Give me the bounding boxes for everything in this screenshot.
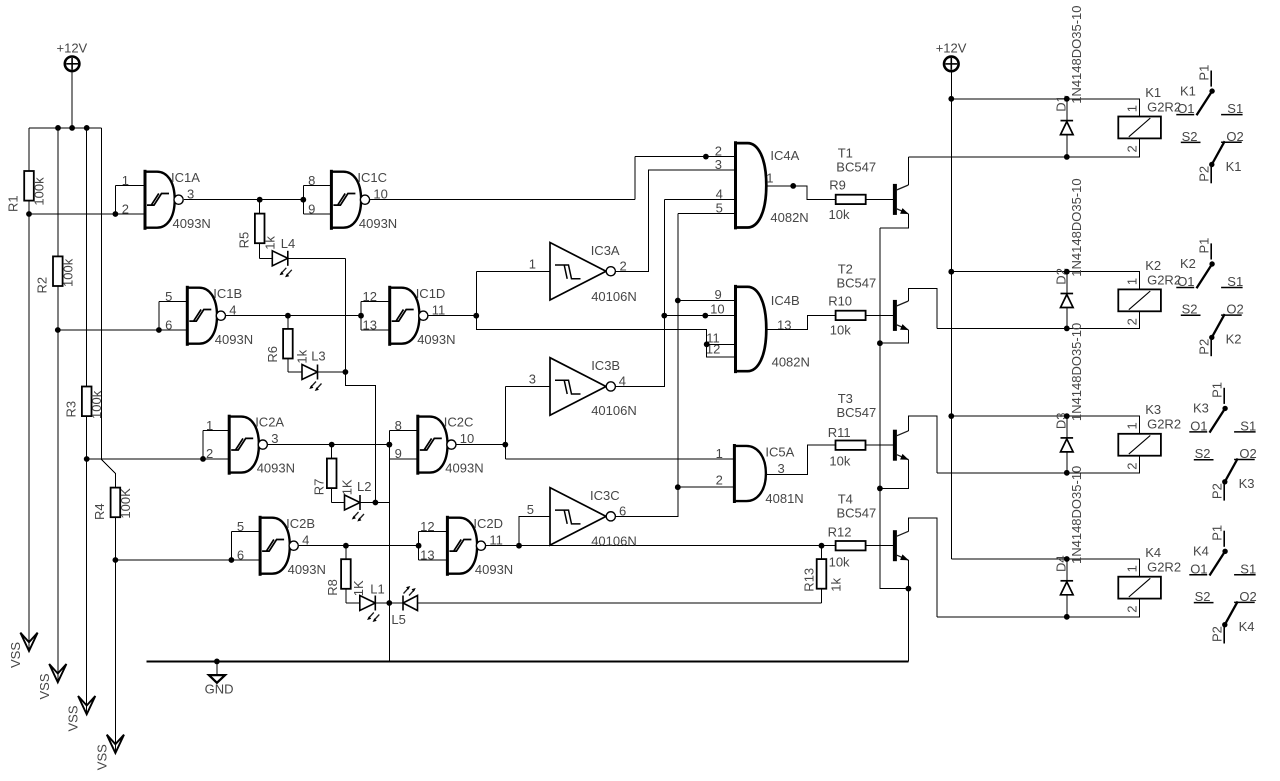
svg-text:P1: P1 xyxy=(1210,382,1225,398)
svg-text:4: 4 xyxy=(229,302,236,317)
svg-text:K4: K4 xyxy=(1193,544,1209,559)
wire column 1 upper xyxy=(28,128,30,171)
node IC5A pin2 column xyxy=(675,484,681,490)
svg-text:BC547: BC547 xyxy=(837,405,877,420)
svg-text:1k: 1k xyxy=(828,577,843,591)
svg-text:T3: T3 xyxy=(838,391,853,406)
transistor T1 BC547 xyxy=(893,184,909,215)
wire T4 emitter xyxy=(907,560,909,589)
wire column 3 lower xyxy=(86,415,88,713)
svg-text:2: 2 xyxy=(1124,463,1139,470)
svg-text:P2: P2 xyxy=(1210,483,1225,499)
svg-text:R11: R11 xyxy=(828,425,851,440)
ground VSS 4 xyxy=(107,735,124,753)
resistor R13 1k xyxy=(821,546,823,560)
node pin10 joint xyxy=(702,313,708,319)
svg-text:R12: R12 xyxy=(828,524,852,539)
svg-text:1N4148DO35-10: 1N4148DO35-10 xyxy=(1069,6,1084,104)
svg-text:10k: 10k xyxy=(829,555,850,570)
svg-text:IC4B: IC4B xyxy=(771,293,800,308)
node pin10 column xyxy=(661,313,667,319)
svg-text:G2R2: G2R2 xyxy=(1147,417,1181,432)
transistor T2 BC547 xyxy=(893,300,909,331)
svg-text:R1: R1 xyxy=(6,195,21,212)
resistor R5 1k xyxy=(259,200,261,214)
wire GND line xyxy=(146,660,908,662)
node R2 to IC1B xyxy=(55,327,61,333)
svg-text:IC3A: IC3A xyxy=(591,243,620,258)
svg-text:R7: R7 xyxy=(312,479,327,496)
wire IC2D out to R12/T4 xyxy=(486,545,893,547)
node D3 top xyxy=(1064,413,1070,419)
node D4 top xyxy=(1064,556,1070,562)
wire IC3A output to IC4A pin3 xyxy=(616,170,735,271)
svg-text:1N4148DO35-10: 1N4148DO35-10 xyxy=(1069,178,1084,276)
svg-text:T4: T4 xyxy=(838,492,853,507)
wire R8 to LED L1 xyxy=(346,602,360,604)
wire L4 to column xyxy=(288,257,346,259)
node T3 emitter rail xyxy=(877,486,883,492)
wire T2 collector xyxy=(908,288,937,328)
svg-text:R9: R9 xyxy=(829,177,846,192)
wire T1 collector xyxy=(907,157,909,185)
svg-text:K1: K1 xyxy=(1226,159,1242,174)
wire K4 pin2 xyxy=(937,599,1140,617)
wire column 4 upper xyxy=(101,128,115,488)
resistor R3 xyxy=(82,387,92,417)
node pin2 joint xyxy=(703,154,709,160)
svg-text:+12V: +12V xyxy=(57,41,88,56)
node R12-R13 tap xyxy=(819,543,825,549)
svg-text:5: 5 xyxy=(237,519,244,534)
node bus-col2 xyxy=(55,125,61,131)
wire IC3C input xyxy=(519,516,550,545)
resistor R12 10k xyxy=(836,541,866,550)
node IC4A out xyxy=(790,183,796,189)
svg-text:1: 1 xyxy=(529,257,536,272)
svg-text:10: 10 xyxy=(710,301,724,316)
wire R6 to LED L3 xyxy=(288,371,302,373)
diode D4 1N4148 xyxy=(1066,559,1068,581)
svg-text:40106N: 40106N xyxy=(591,533,637,548)
svg-text:1K: 1K xyxy=(351,580,366,596)
node L2 junction xyxy=(373,500,379,506)
wire +12V to bus xyxy=(71,71,73,128)
gate IC4A 4082N xyxy=(736,141,767,229)
gate IC2C 4093N xyxy=(389,430,418,459)
wire IC1D out to IC4B pins 11+12 xyxy=(476,316,735,357)
svg-text:IC2D: IC2D xyxy=(473,516,503,531)
node D2 top xyxy=(1064,269,1070,275)
node rail K2 xyxy=(948,269,954,275)
node R1 bottom xyxy=(26,211,32,217)
wire L2 to column xyxy=(360,502,389,504)
svg-text:4093N: 4093N xyxy=(445,461,483,476)
svg-text:4082N: 4082N xyxy=(770,210,808,225)
svg-text:S2: S2 xyxy=(1195,589,1211,604)
switch group K3 xyxy=(1189,382,1256,501)
svg-text:2: 2 xyxy=(716,472,723,487)
svg-text:P2: P2 xyxy=(1197,166,1212,182)
diode D3 1N4148 xyxy=(1066,416,1068,438)
led L3 xyxy=(302,365,322,392)
svg-text:R2: R2 xyxy=(34,277,49,294)
wire column 2 lower xyxy=(57,286,59,682)
wire T2 emitter xyxy=(880,330,909,343)
svg-text:S2: S2 xyxy=(1195,446,1211,461)
svg-text:1K: 1K xyxy=(340,479,355,495)
svg-text:IC4A: IC4A xyxy=(770,148,799,163)
wire K1 feed xyxy=(951,99,1139,117)
wire IC2C out xyxy=(457,444,506,446)
svg-text:G2R2: G2R2 xyxy=(1147,99,1181,114)
node R3 to IC2A xyxy=(84,456,90,462)
svg-text:1: 1 xyxy=(766,170,773,185)
svg-text:IC1B: IC1B xyxy=(213,286,242,301)
inverter IC3B 40106N xyxy=(550,358,615,416)
svg-text:13: 13 xyxy=(777,317,791,332)
svg-text:4: 4 xyxy=(302,532,309,547)
svg-text:IC2A: IC2A xyxy=(255,415,284,430)
wire R1 node to IC1A xyxy=(29,213,145,215)
wire column 2 upper xyxy=(57,128,59,257)
node rail K3 xyxy=(948,413,954,419)
power +12V (left) xyxy=(65,57,80,72)
svg-text:4082N: 4082N xyxy=(772,354,810,369)
svg-text:13: 13 xyxy=(363,317,377,332)
svg-text:100k: 100k xyxy=(89,390,104,419)
svg-text:R5: R5 xyxy=(237,232,252,249)
svg-text:4093N: 4093N xyxy=(475,562,513,577)
svg-text:K2: K2 xyxy=(1226,332,1242,347)
svg-text:IC2C: IC2C xyxy=(444,415,474,430)
svg-text:IC3B: IC3B xyxy=(591,358,620,373)
resistor R9 10k xyxy=(836,195,866,204)
wire L5 to R13 xyxy=(418,602,822,604)
wire K4 feed xyxy=(951,559,1139,577)
gate IC2B 4093N xyxy=(231,531,260,560)
svg-text:6: 6 xyxy=(165,317,172,332)
relay K4 G2R2 coil xyxy=(1118,577,1161,599)
svg-text:9: 9 xyxy=(714,287,721,302)
svg-text:3: 3 xyxy=(271,431,278,446)
svg-text:12: 12 xyxy=(420,519,434,534)
svg-text:BC547: BC547 xyxy=(837,275,877,290)
svg-text:5: 5 xyxy=(527,502,534,517)
resistor R4 xyxy=(111,488,121,518)
svg-text:T1: T1 xyxy=(838,145,853,160)
node D2 bottom xyxy=(1064,326,1070,332)
transistor T3 BC547 xyxy=(893,430,909,461)
svg-text:2: 2 xyxy=(1124,605,1139,612)
relay K3 G2R2 coil xyxy=(1118,434,1161,456)
wire R3 node to IC2A xyxy=(87,458,203,460)
diode D2 1N4148 xyxy=(1066,272,1068,294)
gate IC1A 4093N xyxy=(115,185,145,214)
svg-text:1k: 1k xyxy=(295,349,310,363)
wire K3 pin2 xyxy=(937,456,1140,473)
led L2 xyxy=(345,495,365,522)
svg-text:K4: K4 xyxy=(1239,619,1255,634)
wire supply bus xyxy=(29,127,101,129)
wire T1 emitter xyxy=(880,214,909,228)
node R4 to IC2B xyxy=(113,557,119,563)
svg-text:1: 1 xyxy=(206,418,213,433)
gate IC1B 4093N xyxy=(159,301,187,330)
wire R7 to LED L2 xyxy=(332,502,345,504)
ground VSS 3 xyxy=(78,696,95,714)
relay K1 G2R2 coil xyxy=(1118,117,1161,139)
svg-text:10: 10 xyxy=(373,186,387,201)
led L4 xyxy=(272,251,292,278)
inverter IC3C 40106N xyxy=(550,488,615,545)
wire LED column lower xyxy=(388,459,390,662)
wire K3 feed xyxy=(951,416,1139,434)
svg-text:4093N: 4093N xyxy=(359,216,397,231)
switch group K2 xyxy=(1176,238,1243,357)
wire IC1A out to IC1C xyxy=(184,199,303,201)
svg-text:5: 5 xyxy=(165,289,172,304)
diode D1 1N4148 xyxy=(1066,99,1068,121)
node rail K1 xyxy=(948,96,954,102)
svg-text:P2: P2 xyxy=(1197,339,1212,355)
svg-text:K3: K3 xyxy=(1193,401,1209,416)
svg-text:IC5A: IC5A xyxy=(765,445,794,460)
wire column 4 lower xyxy=(114,517,116,752)
svg-text:2: 2 xyxy=(122,201,129,216)
switch group K1 xyxy=(1176,65,1243,184)
svg-text:IC1A: IC1A xyxy=(171,170,200,185)
wire R4 node to IC2B xyxy=(115,559,231,561)
svg-text:K4: K4 xyxy=(1145,545,1161,560)
wire R5 to LED L4 xyxy=(260,257,273,259)
svg-text:P1: P1 xyxy=(1197,65,1212,81)
node IC2C out junction xyxy=(502,442,508,448)
svg-text:3: 3 xyxy=(715,157,722,172)
wire IC2C out junction riser xyxy=(504,386,506,459)
svg-text:GND: GND xyxy=(205,682,234,697)
svg-text:S2: S2 xyxy=(1182,129,1198,144)
node GND tap xyxy=(214,659,220,665)
inverter IC3A 40106N xyxy=(550,243,615,301)
wire T3 collector xyxy=(908,416,937,473)
wire IC2A out to IC2C xyxy=(268,444,389,446)
svg-text:R10: R10 xyxy=(828,293,852,308)
svg-text:100k: 100k xyxy=(60,258,75,287)
svg-text:IC3C: IC3C xyxy=(590,488,620,503)
ground VSS 1 xyxy=(20,633,37,651)
svg-text:10k: 10k xyxy=(829,207,850,222)
svg-text:11: 11 xyxy=(432,302,446,317)
wire IC3C output to column xyxy=(616,214,678,517)
svg-text:3: 3 xyxy=(778,461,785,476)
svg-text:1N4148DO35-10: 1N4148DO35-10 xyxy=(1069,466,1084,564)
svg-text:K3: K3 xyxy=(1239,476,1255,491)
svg-text:VSS: VSS xyxy=(37,673,52,699)
wire K1 pin2 xyxy=(908,138,1139,157)
svg-text:K2: K2 xyxy=(1180,256,1196,271)
ground VSS 2 xyxy=(49,664,66,682)
svg-text:G2R2: G2R2 xyxy=(1147,272,1181,287)
svg-text:K1: K1 xyxy=(1180,83,1196,98)
wire IC1C out xyxy=(370,199,635,201)
node T4 emitter rail xyxy=(906,586,912,592)
svg-text:40106N: 40106N xyxy=(591,403,637,418)
gate IC4B 4082N xyxy=(736,285,767,373)
wire IC4B pin10 xyxy=(664,315,735,317)
node D1 bottom xyxy=(1064,154,1070,160)
node R7 tap xyxy=(329,442,335,448)
svg-text:4093N: 4093N xyxy=(288,562,326,577)
svg-text:12: 12 xyxy=(363,289,377,304)
gate IC5A 4081N xyxy=(734,444,766,503)
led L5 xyxy=(403,586,418,611)
gate IC2D 4093N xyxy=(419,531,448,560)
svg-text:9: 9 xyxy=(395,446,402,461)
wire IC3B output to column xyxy=(616,200,664,387)
wire IC5A out to R11 xyxy=(766,445,893,474)
svg-text:+12V: +12V xyxy=(936,41,967,56)
svg-text:IC2B: IC2B xyxy=(286,516,315,531)
wire IC1D out xyxy=(429,315,477,317)
svg-text:R3: R3 xyxy=(63,401,78,418)
wire IC1B out to IC1D xyxy=(226,315,361,317)
svg-text:10k: 10k xyxy=(829,454,850,469)
wire LED column upper xyxy=(345,258,375,502)
wire column 1 lower xyxy=(28,201,30,650)
node L1-L5 junction xyxy=(386,600,392,606)
wire IC2B out to IC2D xyxy=(299,545,419,547)
svg-text:BC547: BC547 xyxy=(837,506,877,521)
svg-text:8: 8 xyxy=(308,173,315,188)
resistor R10 10k xyxy=(836,311,866,320)
gate IC2A 4093N xyxy=(203,430,229,459)
svg-text:6: 6 xyxy=(237,547,244,562)
svg-text:9: 9 xyxy=(308,201,315,216)
svg-text:VSS: VSS xyxy=(8,642,23,668)
svg-text:3: 3 xyxy=(529,372,536,387)
wire IC5A pin2 xyxy=(678,486,735,488)
node D1 top xyxy=(1064,96,1070,102)
wire IC4B out to R10 xyxy=(766,315,893,329)
wire T4 collector xyxy=(908,518,937,617)
svg-text:40106N: 40106N xyxy=(591,289,637,304)
svg-text:K2: K2 xyxy=(1145,258,1161,273)
svg-text:VSS: VSS xyxy=(94,744,109,770)
svg-text:BC547: BC547 xyxy=(836,159,876,174)
svg-text:13: 13 xyxy=(420,547,434,562)
resistor R8 1K xyxy=(345,546,347,560)
svg-text:P2: P2 xyxy=(1210,626,1225,642)
wire IC4B pin11 xyxy=(707,343,736,345)
node IC1D out junction xyxy=(473,313,479,319)
resistor R2 xyxy=(53,256,63,286)
svg-text:2: 2 xyxy=(1124,318,1139,325)
svg-text:R13: R13 xyxy=(802,568,817,592)
node D3 bottom xyxy=(1064,470,1070,476)
wire IC4A pin2 xyxy=(635,156,736,158)
wire T3 emitter xyxy=(880,460,909,489)
node bus-12V xyxy=(69,125,75,131)
node D4 bottom xyxy=(1064,614,1070,620)
svg-text:4093N: 4093N xyxy=(215,332,253,347)
svg-text:P1: P1 xyxy=(1210,525,1225,541)
wire L1 to node xyxy=(375,602,389,604)
svg-text:L1: L1 xyxy=(370,581,384,596)
svg-text:1k: 1k xyxy=(262,236,277,250)
svg-text:P1: P1 xyxy=(1197,238,1212,254)
transistor T4 BC547 xyxy=(893,530,909,561)
svg-text:10k: 10k xyxy=(830,323,851,338)
wire +12V rail xyxy=(950,71,952,559)
svg-text:10: 10 xyxy=(460,431,474,446)
wire IC5A pin1 xyxy=(505,458,734,460)
gate IC1D 4093N xyxy=(361,301,390,330)
svg-text:G2R2: G2R2 xyxy=(1147,560,1181,575)
svg-text:3: 3 xyxy=(187,186,194,201)
svg-text:4093N: 4093N xyxy=(173,216,211,231)
svg-text:L4: L4 xyxy=(281,236,295,251)
svg-text:IC1C: IC1C xyxy=(357,170,387,185)
svg-text:K1: K1 xyxy=(1145,85,1161,100)
svg-text:2: 2 xyxy=(206,446,213,461)
node R5 tap xyxy=(257,197,263,203)
svg-text:1: 1 xyxy=(1124,105,1139,112)
led L1 xyxy=(360,596,380,623)
wire IC4A out to R9 xyxy=(766,186,893,200)
svg-text:1: 1 xyxy=(1124,278,1139,285)
svg-text:L2: L2 xyxy=(357,479,371,494)
switch group K4 xyxy=(1189,525,1256,644)
svg-text:L5: L5 xyxy=(391,612,405,627)
power +12V (right) xyxy=(944,57,959,72)
gate IC1C 4093N xyxy=(303,185,331,214)
svg-text:1: 1 xyxy=(1124,565,1139,572)
svg-text:R4: R4 xyxy=(92,503,107,520)
node T2 emitter rail xyxy=(877,340,883,346)
ground GND symbol xyxy=(216,661,218,675)
resistor R1 xyxy=(24,171,34,201)
wire IC4B pin9 xyxy=(678,300,736,302)
relay K2 G2R2 coil xyxy=(1118,289,1161,311)
node R6 tap xyxy=(285,313,291,319)
svg-text:1: 1 xyxy=(1124,422,1139,429)
resistor R7 1K xyxy=(331,445,333,459)
svg-text:1N4148DO35-10: 1N4148DO35-10 xyxy=(1069,323,1084,421)
svg-text:11: 11 xyxy=(489,532,503,547)
svg-text:100K: 100K xyxy=(118,488,133,519)
svg-text:1: 1 xyxy=(122,173,129,188)
wire node to L5 xyxy=(389,602,403,604)
svg-text:VSS: VSS xyxy=(66,705,81,731)
node pin9 column xyxy=(675,298,681,304)
node LED column tap xyxy=(386,442,392,448)
svg-text:2: 2 xyxy=(1124,145,1139,152)
svg-text:8: 8 xyxy=(395,418,402,433)
svg-text:4081N: 4081N xyxy=(765,491,803,506)
svg-text:IC1D: IC1D xyxy=(416,286,446,301)
wire IC3A input xyxy=(476,270,550,272)
node IC2D out to IC3C xyxy=(516,543,522,549)
node pin11 bracket xyxy=(704,341,710,347)
wire IC4A pin4 xyxy=(664,199,735,201)
svg-text:4093N: 4093N xyxy=(417,332,455,347)
node R8 tap xyxy=(343,543,349,549)
wire emitter rail xyxy=(880,228,909,661)
wire K2 pin2 xyxy=(937,311,1140,328)
wire IC3B input xyxy=(505,385,550,387)
svg-text:S2: S2 xyxy=(1182,302,1198,317)
